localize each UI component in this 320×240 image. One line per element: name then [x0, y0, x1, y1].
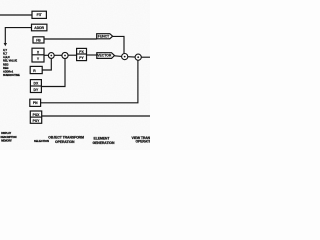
- svg-text:PN: PN: [33, 101, 38, 105]
- svg-text:PX: PX: [79, 50, 84, 54]
- svg-text:PSX: PSX: [33, 113, 41, 117]
- svg-text:FB: FB: [36, 38, 41, 42]
- svg-text:OPERATION: OPERATION: [55, 140, 75, 144]
- svg-text:PY: PY: [79, 56, 84, 60]
- svg-text:REG: REG: [3, 66, 9, 70]
- svg-text:DESCRIPTION: DESCRIPTION: [1, 136, 17, 139]
- svg-text:SELECTION: SELECTION: [34, 139, 49, 143]
- svg-text:GENERATION: GENERATION: [93, 141, 115, 145]
- svg-text:REL VALUE: REL VALUE: [3, 59, 17, 63]
- svg-text:DY: DY: [34, 88, 39, 92]
- svg-text:SUBROUTINE: SUBROUTINE: [3, 73, 20, 77]
- svg-text:VECTOR: VECTOR: [97, 54, 112, 58]
- svg-text:DX: DX: [34, 82, 39, 86]
- svg-text:PSY: PSY: [33, 119, 41, 123]
- svg-text:ADDR+1: ADDR+1: [3, 70, 14, 74]
- svg-text:X,Y: X,Y: [3, 48, 7, 52]
- svg-text:ADDR: ADDR: [34, 26, 44, 30]
- svg-text:FUNCT: FUNCT: [98, 35, 110, 39]
- svg-text:OPERATION: OPERATION: [136, 140, 151, 144]
- svg-text:DISPLAY: DISPLAY: [1, 132, 11, 135]
- svg-text:REG: REG: [3, 62, 9, 66]
- svg-text:MEMORY: MEMORY: [1, 140, 12, 143]
- svg-text:A,B,C: A,B,C: [3, 55, 10, 59]
- svg-text:ELEMENT: ELEMENT: [94, 136, 111, 140]
- svg-text:R,T: R,T: [3, 51, 7, 55]
